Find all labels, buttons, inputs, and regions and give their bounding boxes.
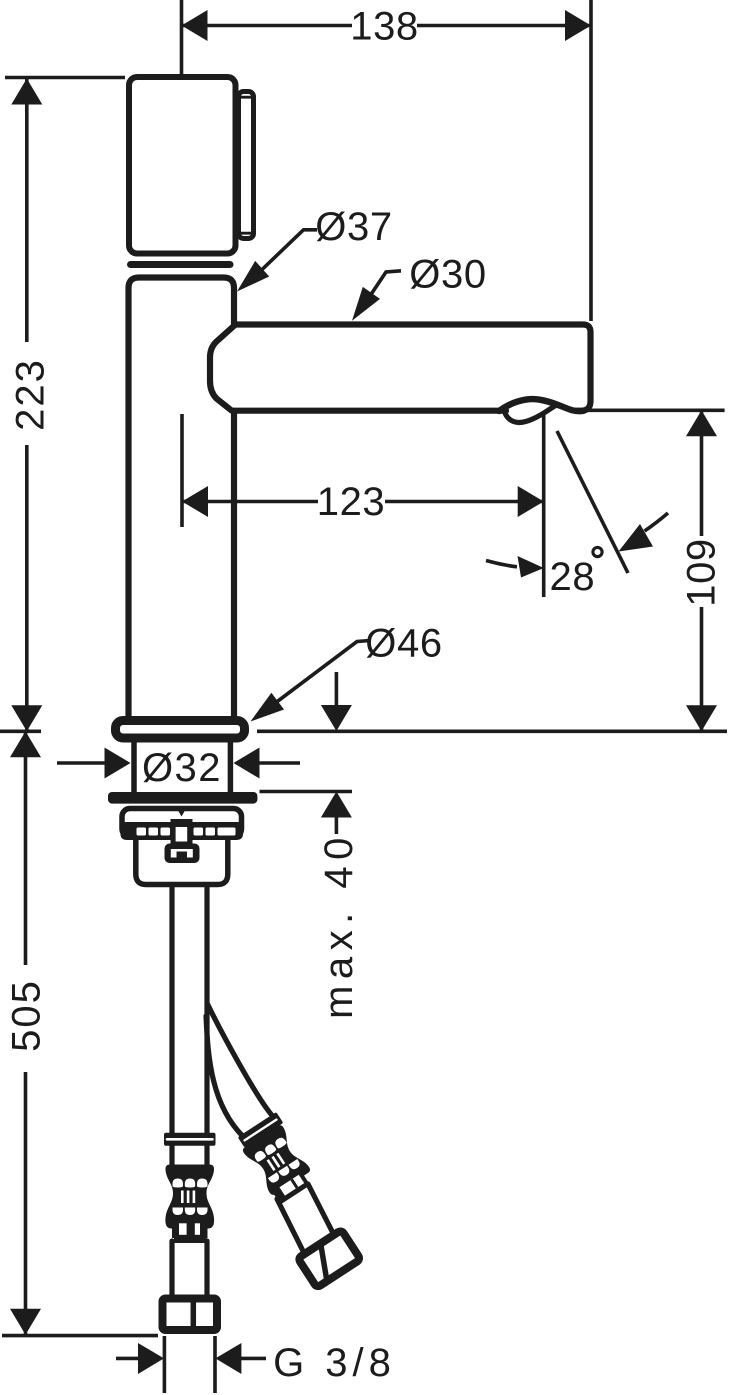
dimension 138 arrow right xyxy=(565,10,591,41)
svg-text:505: 505 xyxy=(5,979,49,1052)
svg-text:max. 40: max. 40 xyxy=(317,831,361,1019)
dimension 223 arrow top xyxy=(11,79,42,105)
angled hose braided barrel xyxy=(241,1124,311,1197)
svg-text:223: 223 xyxy=(9,358,53,431)
washer center mark xyxy=(176,807,187,817)
dimension max40 bottom arrow xyxy=(321,792,352,818)
base plate xyxy=(116,721,245,739)
supply hose upper tube xyxy=(169,887,174,1133)
rubber washer xyxy=(108,792,257,804)
angle 28 deg arrow right xyxy=(619,524,654,552)
svg-text:28: 28 xyxy=(550,555,596,599)
hose braided barrel xyxy=(165,1165,214,1229)
shank tube xyxy=(131,742,137,794)
dimension 138 arrow left xyxy=(182,10,208,41)
dimension 109 extension line top xyxy=(577,408,725,412)
dimension 123 arrow left xyxy=(182,486,208,517)
svg-text:G 3/8: G 3/8 xyxy=(273,1341,396,1385)
leader diameter 30 xyxy=(358,271,402,315)
handle side knob xyxy=(239,92,254,239)
dimension G38 arrows xyxy=(116,1357,139,1361)
angle 28 deg reference line xyxy=(557,431,628,573)
spout bottom xyxy=(233,408,506,414)
dimension diameter 32 arrows xyxy=(57,761,106,765)
body lower right edge xyxy=(231,411,237,717)
dimension max40 extension line xyxy=(260,790,353,794)
dimension 123 extension line right (outlet axis) xyxy=(542,413,546,597)
angled hose collar 2 xyxy=(270,1169,310,1204)
angled hose collar 1 xyxy=(238,1112,284,1148)
supply hose lower tube xyxy=(169,1241,174,1297)
dimension 505 line xyxy=(24,731,28,965)
spout top and right edge xyxy=(234,325,591,411)
outlet swoosh lower xyxy=(505,404,558,422)
svg-text:Ø30: Ø30 xyxy=(409,253,486,297)
dimension G38 extension lines xyxy=(163,1336,167,1393)
leader diameter 37 xyxy=(249,230,318,283)
hose end nut G38 xyxy=(163,1299,218,1331)
hose tube between collar and barrel xyxy=(169,1145,174,1167)
dimension 138 extension line right xyxy=(589,0,593,321)
dimension 223 extension line bottom xyxy=(0,729,41,733)
angle 28 deg arrow left xyxy=(518,556,544,578)
svg-text:109: 109 xyxy=(680,538,724,607)
angle 28 deg arc left xyxy=(486,561,517,567)
dimension 223 arrow bottom xyxy=(11,705,42,731)
dimension 109 line xyxy=(700,410,704,536)
dimension 505 arrow bottom xyxy=(10,1309,41,1335)
hose collar 2 xyxy=(172,1219,208,1238)
outlet swoosh upper xyxy=(499,399,584,411)
angle 28 deg arc right xyxy=(645,513,669,531)
dimension 109 arrow bottom xyxy=(686,705,717,731)
dimension 505 extension line bottom xyxy=(2,1334,158,1338)
dimension 138 extension line left xyxy=(180,0,184,87)
angled hose lower tube xyxy=(277,1199,303,1251)
faucet handle xyxy=(129,77,236,254)
dimension 123 line xyxy=(182,500,318,504)
dimension 123 arrow right xyxy=(518,486,544,517)
dimension 223 line xyxy=(25,79,29,343)
clamp block xyxy=(171,819,193,848)
serrated washer xyxy=(122,809,242,838)
counter mounting surface line xyxy=(257,729,727,733)
hose collar 1 xyxy=(164,1133,216,1146)
svg-text:Ø46: Ø46 xyxy=(365,622,442,666)
svg-text:123: 123 xyxy=(317,480,386,524)
spout bend bulge xyxy=(210,325,236,411)
dimension max40 top arrow xyxy=(335,672,339,708)
angled hose tube edges xyxy=(206,1016,243,1137)
separator ring xyxy=(131,261,231,268)
angled hose end nut G38 xyxy=(298,1230,361,1288)
svg-text:Ø32: Ø32 xyxy=(142,746,222,790)
faucet body outline xyxy=(129,278,235,717)
svg-text:138: 138 xyxy=(350,5,419,49)
dimension 138 line xyxy=(182,24,353,28)
dimension 109 arrow top xyxy=(686,410,717,436)
dimension 223 extension line top xyxy=(5,76,125,80)
leader diameter 46 xyxy=(258,641,370,717)
svg-text:Ø37: Ø37 xyxy=(315,205,392,249)
mounting nut xyxy=(136,840,228,885)
hose collar 2 neck xyxy=(174,1238,207,1244)
dimension 505 arrow top xyxy=(10,731,41,757)
dimension 123 extension line left (body axis) xyxy=(180,414,184,527)
